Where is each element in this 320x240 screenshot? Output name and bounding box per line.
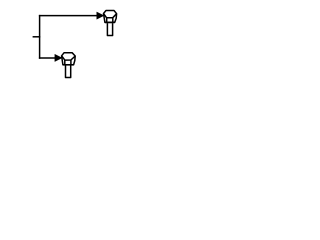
bolt B2 head facet lines <box>65 60 71 65</box>
wire vertical trunk <box>39 15 41 59</box>
bolt B1 head top-face bottom edges <box>104 14 117 18</box>
wire left stub <box>33 36 41 38</box>
arrowhead to bolt B2 <box>55 54 62 61</box>
arrowhead to bolt B1 <box>97 12 104 19</box>
bolt B2 hex head outline <box>62 53 76 65</box>
bolt B2 head top-face bottom edges <box>62 56 76 60</box>
wire top branch <box>39 15 98 17</box>
bolt B2 head bottom edge <box>63 64 74 66</box>
wire bottom branch <box>39 57 56 59</box>
bolt B1 head bottom edge <box>105 21 115 23</box>
bolt B1 head facet lines <box>107 18 113 23</box>
bolt B1 shank <box>107 23 112 35</box>
bolt B2 shank <box>66 66 71 78</box>
bolt B1 hex head outline <box>104 11 117 23</box>
